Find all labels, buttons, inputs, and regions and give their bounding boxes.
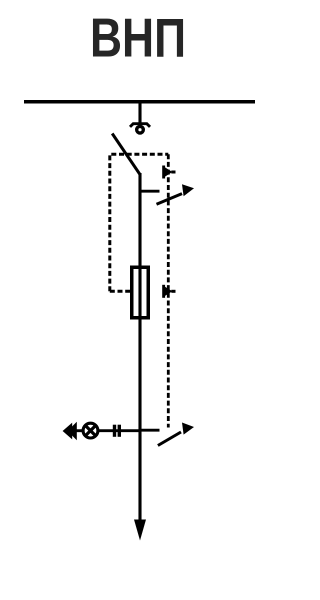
dashed linkage line (right)	[167, 154, 170, 427]
plug-in contact (tulip)	[130, 124, 150, 127]
release symbol 2	[162, 285, 175, 298]
lower switch fixed contact tick	[140, 429, 160, 432]
separable connector bars	[113, 425, 121, 437]
upper drive lever	[157, 194, 183, 205]
wire: stub from busbar	[138, 101, 141, 125]
svg-text:ВНП: ВНП	[90, 8, 186, 69]
fuse FU	[132, 267, 149, 318]
outgoing line arrow (bottom)	[134, 520, 146, 541]
lower switch arrow head	[182, 423, 194, 435]
dashed enclosure box (mechanical linkage)	[110, 154, 169, 291]
dashed box bottom edge to fuse	[110, 290, 131, 293]
fixed contact circle	[137, 126, 144, 133]
lamp/indicator circle with X	[83, 423, 98, 438]
wire: main vertical conductor	[138, 173, 141, 523]
cable double arrowhead	[63, 422, 77, 440]
outgoing feeder wire (left)	[71, 429, 84, 432]
release symbol 1	[162, 166, 175, 179]
busbar	[24, 100, 255, 104]
lower switch lever	[158, 432, 181, 446]
upper drive fixed contact tick	[140, 190, 160, 193]
upper drive arrow head	[182, 184, 194, 196]
switch blade QW (open)	[112, 134, 140, 175]
